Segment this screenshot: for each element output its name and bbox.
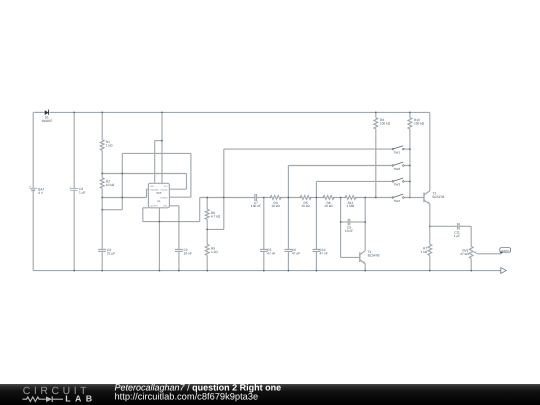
svg-text:SW4: SW4 [394, 199, 401, 203]
resistor R6 [323, 196, 334, 200]
svg-text:1 µF: 1 µF [79, 190, 85, 194]
transistor T1 BC547B [341, 256, 360, 258]
resistor R2 [100, 178, 104, 189]
transistor T2 BC547B [410, 197, 424, 199]
svg-text:10 kΩ: 10 kΩ [271, 204, 280, 208]
capacitor C9 across R11 [340, 198, 342, 258]
svg-text:1 MΩ: 1 MΩ [347, 204, 355, 208]
terminal dots [270, 197, 271, 198]
svg-text:SW3: SW3 [394, 183, 401, 187]
svg-text:47 nF: 47 nF [292, 252, 300, 256]
capacitor C11 [430, 225, 458, 227]
junction dots ground rail [73, 270, 75, 272]
svg-text:47 nF: 47 nF [320, 252, 328, 256]
svg-text:THRESH: THRESH [160, 196, 168, 199]
resistor R1 [101, 112, 103, 139]
wire wiper to output [477, 253, 501, 255]
svg-text:555: 555 [156, 191, 161, 195]
svg-text:47 nF: 47 nF [267, 252, 275, 256]
wire divider tap A [207, 228, 224, 230]
node ground rail arrow [501, 268, 507, 274]
capacitor C10 and tap C [315, 181, 317, 249]
svg-text:BC547B: BC547B [433, 195, 445, 199]
svg-text:SW2: SW2 [394, 167, 401, 171]
resistor R3 pullup [375, 112, 377, 117]
svg-text:U1: U1 [157, 200, 161, 203]
svg-text:BC547B: BC547B [368, 253, 380, 257]
junction dots top rail [73, 112, 75, 114]
resistor R9 [205, 244, 209, 255]
resistor R7 [429, 226, 431, 244]
wire main output line [200, 197, 255, 199]
wire R2-bottom to IC left pin [102, 197, 146, 199]
svg-text:1 µF: 1 µF [454, 234, 460, 238]
svg-text:10 kΩ: 10 kΩ [301, 204, 310, 208]
svg-text:47 kΩ: 47 kΩ [460, 252, 469, 256]
footer bar [0, 384, 540, 405]
wire IC bottom-right wrap [169, 205, 179, 207]
svg-text:1 kΩ: 1 kΩ [211, 250, 218, 254]
capacitor C6 and tap B [287, 166, 289, 250]
battery V1 9V [32, 112, 34, 188]
svg-text:SW1: SW1 [394, 151, 401, 155]
switch SW2 [392, 165, 394, 167]
resistor R10 pullup [409, 112, 411, 117]
svg-text:10 kΩ: 10 kΩ [106, 183, 115, 187]
junction dots left [101, 173, 103, 175]
logo wire with resistor and diode [23, 397, 46, 402]
svg-text:http://circuitlab.com/c8f679k9: http://circuitlab.com/c8f679k9pta3e [115, 391, 259, 401]
svg-text:LAB: LAB [65, 393, 96, 403]
switch SW3 [392, 181, 394, 183]
svg-text:4.7 kΩ: 4.7 kΩ [211, 214, 221, 218]
resistor R4 [270, 196, 281, 200]
wire outer loop to IC right pin [122, 152, 191, 154]
resistor R8 [206, 198, 208, 210]
svg-text:DISCHG: DISCHG [161, 188, 169, 191]
potentiometer RV1 [470, 226, 472, 246]
svg-text:1 kΩ: 1 kΩ [106, 144, 113, 148]
capacitor C3 [98, 248, 106, 250]
switch SW4 [392, 197, 394, 199]
svg-text:1N4007: 1N4007 [41, 119, 52, 123]
wire top power rail [33, 111, 45, 113]
switch SW1 [392, 148, 394, 150]
svg-text:100 nF: 100 nF [251, 204, 261, 208]
svg-text:1 kΩ: 1 kΩ [421, 250, 428, 254]
capacitor C2 [175, 248, 183, 250]
capacitor C5 [263, 198, 265, 250]
capacitor C4 [73, 112, 75, 188]
node output flag [500, 248, 511, 253]
svg-text:output: output [501, 249, 509, 252]
wire IC bottom-left wrap [143, 207, 149, 209]
svg-text:10 nF: 10 nF [345, 229, 353, 233]
wire node R1-R2 to IC pin [102, 173, 186, 175]
svg-text:OUTPUT: OUTPUT [150, 204, 158, 207]
op-amp U1 555 timer [148, 183, 169, 208]
diode D1 [45, 110, 49, 115]
wire ground rail [33, 270, 501, 272]
svg-text:100 kΩ: 100 kΩ [380, 122, 391, 126]
svg-text:100 kΩ: 100 kΩ [414, 122, 425, 126]
capacitor C7 [254, 194, 256, 201]
svg-text:CTRL: CTRL [163, 204, 168, 207]
svg-text:22 µF: 22 µF [107, 252, 115, 256]
svg-text:10 kΩ: 10 kΩ [324, 204, 333, 208]
resistor R11 [345, 196, 356, 200]
svg-text:10 nF: 10 nF [184, 252, 192, 256]
wire VDD feed [161, 112, 163, 183]
wire IC gnd pin [158, 208, 160, 271]
resistor R5 [300, 196, 311, 200]
